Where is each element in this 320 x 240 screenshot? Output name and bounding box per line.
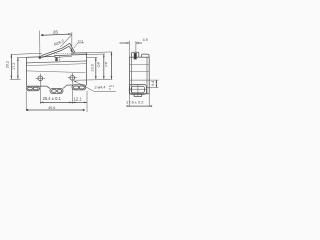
svg-text:49.6: 49.6	[48, 106, 55, 110]
svg-text:26: 26	[53, 30, 59, 35]
svg-text:FP: FP	[103, 61, 108, 66]
svg-text:17.2: 17.2	[12, 63, 16, 70]
svg-text:20.2: 20.2	[6, 61, 10, 68]
svg-text:6.4: 6.4	[151, 81, 155, 86]
svg-text:4.9: 4.9	[143, 38, 148, 42]
svg-text:13.9: 13.9	[90, 64, 94, 71]
svg-text:12.1: 12.1	[74, 96, 83, 101]
svg-text:t=1: t=1	[78, 39, 83, 43]
svg-text:2-ø4.4: 2-ø4.4	[95, 86, 106, 90]
svg-text:OP: OP	[96, 61, 101, 67]
svg-text:25.4 ± 0.1: 25.4 ± 0.1	[43, 96, 62, 101]
svg-text:17.6 ± 0.2: 17.6 ± 0.2	[126, 100, 143, 105]
